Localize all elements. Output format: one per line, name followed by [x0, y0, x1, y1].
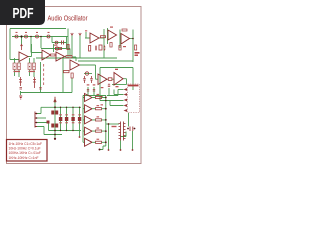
wire right bus y61	[78, 60, 133, 62]
wire conn pin5 drop	[128, 113, 130, 127]
op-amp BF5	[85, 138, 93, 146]
label S1 arrow	[54, 97, 56, 102]
junction node dot A	[20, 35, 22, 37]
resistor R16	[67, 45, 69, 50]
svg-text:100Hz-1KHz C=.01uF: 100Hz-1KHz C=.01uF	[9, 151, 41, 155]
op-amp U1	[90, 33, 99, 43]
svg-text:1KHz-10KHz C=1nF: 1KHz-10KHz C=1nF	[9, 156, 39, 160]
resistor R18	[110, 43, 112, 48]
resistor R11	[135, 45, 137, 50]
wire opamp U1 inputs	[85, 32, 90, 38]
resistor R8	[122, 29, 127, 31]
wire output box left	[100, 68, 106, 101]
wire mid bus y58	[36, 57, 117, 59]
label net ticks mid	[101, 87, 104, 105]
resistor RB3	[96, 119, 102, 121]
label U3 tick	[123, 46, 126, 47]
notes text	[9, 142, 43, 160]
wire sw drop3	[132, 131, 134, 150]
wire conn pin4	[110, 101, 124, 106]
capacitor C4	[20, 88, 23, 90]
label ticks above jacks	[16, 32, 50, 33]
resistor R10	[99, 45, 102, 50]
schematic sheet frame	[7, 7, 142, 164]
op-amp BF4	[85, 127, 93, 135]
wire conn cap	[107, 88, 118, 96]
label CN1	[128, 85, 139, 87]
resistor RB5	[96, 141, 102, 143]
wire pot stubs below	[15, 70, 35, 78]
wire pot stubs above	[15, 58, 35, 63]
capacitor C1	[62, 41, 64, 45]
switch S1 (range)	[35, 112, 37, 128]
op-amp BF2	[85, 105, 93, 113]
wire output box right	[132, 68, 134, 91]
capacitor C7 pair	[51, 111, 54, 115]
wire drop x41	[40, 37, 42, 49]
label S2	[112, 126, 117, 127]
potentiometer P2 (dual gang)	[28, 63, 31, 70]
capacitor C9 left	[47, 121, 50, 124]
wire sw drop2	[120, 141, 122, 151]
label P1	[14, 71, 21, 72]
cap bank labels	[59, 114, 81, 123]
op-amp U7	[98, 74, 107, 85]
wire y48 row	[41, 44, 70, 57]
wire U7 out	[107, 78, 114, 80]
wire cap stubs	[61, 107, 80, 130]
jack J5	[55, 41, 58, 44]
svg-text:10Hz-100Hz C=0.1uF: 10Hz-100Hz C=0.1uF	[9, 147, 41, 151]
capacitor C6	[83, 76, 86, 83]
jack J7	[85, 72, 88, 75]
op-amp BF1	[85, 94, 93, 102]
wire bottom rail right sect	[112, 84, 127, 86]
wire cap-bank bottom rail	[49, 130, 82, 132]
label U2 tick	[110, 27, 113, 28]
wire sw feed rail	[106, 123, 119, 125]
buffer resistor labels	[97, 94, 100, 140]
wire switch S1 feed 4	[37, 127, 44, 135]
label sub-box	[54, 45, 57, 46]
label U1 in tick	[85, 30, 87, 31]
label B1 bottom	[116, 86, 119, 87]
capacitor C11	[65, 117, 68, 121]
wire switch S1 feed 1	[37, 107, 41, 113]
op-amp T4	[56, 52, 65, 61]
wire buffer in stubs	[83, 98, 85, 143]
wire sw cap link	[121, 132, 127, 137]
jack J4	[47, 35, 50, 38]
junction dots S1	[36, 113, 38, 124]
wire buffer box left	[83, 96, 106, 143]
wire left vertical	[10, 29, 19, 60]
switch S2 wafer	[119, 122, 126, 141]
op-amp T2	[19, 52, 28, 62]
resistor R13	[71, 73, 73, 78]
wire output box top	[100, 67, 133, 69]
op-amp T3	[42, 50, 51, 60]
capacitor C16	[108, 84, 110, 87]
resistor R5	[66, 56, 72, 58]
resistor R2a	[54, 42, 56, 44]
resistor R2	[54, 42, 56, 44]
wire conn pin1	[118, 89, 124, 91]
resistor R17	[119, 46, 121, 51]
wire conn pin3	[106, 100, 124, 102]
wire jack row	[12, 36, 68, 38]
op-amp T5	[70, 60, 80, 70]
wire drop x31	[31, 37, 42, 53]
pin 4	[124, 104, 128, 107]
notes box	[7, 140, 48, 162]
potentiometer P1 (dual gang)	[13, 63, 36, 70]
wire x68 vertical	[67, 29, 69, 59]
wire buffer resistor links	[92, 98, 106, 143]
wire conn pin2	[114, 90, 124, 95]
pin 3	[124, 99, 128, 102]
wire mid rail y92.5	[20, 91, 72, 95]
wire x104 vertical	[103, 29, 105, 58]
junction dot U3 out	[132, 38, 134, 40]
capacitor C10	[59, 117, 62, 121]
ground GND1	[19, 96, 22, 99]
wire x72 drop	[71, 78, 73, 93]
PDF badge	[0, 0, 45, 25]
net label column	[43, 64, 44, 85]
capacitor C2	[95, 46, 97, 51]
capacitor C12	[71, 117, 74, 121]
wire end dot 1	[108, 149, 110, 151]
pin 5	[124, 109, 128, 112]
wire sub box	[52, 37, 67, 49]
pin 2	[124, 93, 128, 96]
wire sw drop1	[108, 124, 110, 150]
capacitor C5	[39, 88, 41, 90]
buffer cap labels	[87, 84, 90, 85]
jack J1	[15, 35, 89, 75]
trimmer VR2	[33, 77, 36, 88]
buffer column caps C14 C15	[87, 90, 95, 92]
op-amp U3	[121, 34, 130, 45]
wire cap-bank lower rail	[44, 134, 62, 136]
capacitor C13	[78, 117, 81, 121]
pin 1	[124, 88, 128, 91]
resistor R12	[64, 71, 70, 73]
resistor RB2	[96, 108, 102, 110]
wire node A drop	[21, 37, 23, 46]
wire x133 vertical	[132, 30, 134, 63]
op-amp BF3	[85, 116, 93, 124]
label B1 top	[115, 69, 118, 70]
wire T2 out	[28, 44, 32, 57]
resistor R7	[101, 36, 106, 38]
svg-text:PDF: PDF	[13, 6, 34, 22]
trimmer VR1	[19, 77, 22, 86]
wire x63 vertical	[62, 58, 64, 93]
wire U3 out	[130, 38, 134, 40]
capacitor C3	[104, 46, 106, 51]
junction dots sw	[108, 123, 136, 129]
resistor R6	[51, 54, 56, 56]
junction dot x31	[30, 36, 32, 38]
wire supply stub 1	[71, 35, 73, 58]
wire T4 out	[65, 57, 76, 62]
resistor RB4	[96, 130, 102, 132]
wire cap-bank center	[54, 100, 56, 139]
capacitor bank	[47, 111, 82, 128]
wire top bus	[10, 28, 66, 30]
wire supply stub 2	[79, 35, 81, 58]
wire buffer out bus	[100, 96, 106, 150]
connector CN1 box	[128, 84, 140, 113]
junction dots bank	[54, 106, 80, 139]
wire x79.5 tail	[79, 131, 81, 137]
capacitor C17	[130, 127, 133, 132]
wire end dot 2	[120, 149, 122, 151]
wire x120 vertical	[119, 30, 121, 49]
wire switch S1 feed 3	[37, 123, 49, 131]
wire end dot 3	[132, 149, 134, 151]
page background	[0, 0, 149, 198]
wire cap-bank top rail	[41, 106, 81, 108]
pot wiper dots	[14, 66, 34, 67]
wire end dot bank	[79, 136, 81, 138]
supply symbol VCC1	[71, 33, 73, 35]
resistor RB1	[96, 96, 102, 98]
wire x107 vertical	[107, 28, 109, 44]
junction dots buffer bus	[99, 97, 107, 151]
wire x40.5 vertical	[40, 62, 42, 93]
resistor R1	[56, 47, 62, 49]
wire opamp U1 output	[99, 37, 104, 39]
wire buffer cap stubs	[88, 87, 94, 96]
junction dot x41	[40, 36, 42, 38]
op-amp B1 booster	[114, 73, 123, 86]
resistor R14	[90, 76, 93, 83]
svg-text:1Hz-10Hz C1=C5=1uF: 1Hz-10Hz C1=C5=1uF	[9, 142, 43, 146]
wire J7 link	[84, 73, 92, 75]
supply symbol VCC2	[79, 33, 81, 35]
svg-text:Audio Oscillator: Audio Oscillator	[48, 15, 89, 22]
jack J2	[25, 35, 28, 38]
label OUT	[135, 52, 140, 54]
jack J3	[36, 35, 39, 38]
resistor R15	[108, 78, 112, 81]
op-amp U2	[108, 30, 117, 40]
wire switch S1 feed 2	[37, 117, 46, 119]
wire T5 output	[80, 65, 98, 79]
jack J6	[55, 47, 58, 50]
potentiometer R4 arrow	[21, 45, 23, 51]
capacitor C8 pair	[51, 124, 54, 128]
wire B out	[123, 79, 127, 85]
resistor R9	[89, 46, 91, 52]
label P2	[29, 71, 36, 72]
